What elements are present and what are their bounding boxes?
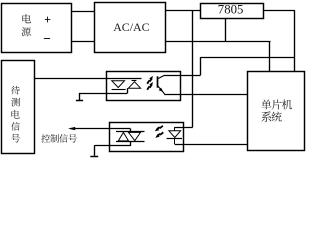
U2 LED (photodiode symbol, down) xyxy=(174,127,176,131)
label 控制信号 xyxy=(41,134,77,143)
wire: AC/AC lower output right xyxy=(166,41,271,43)
U1 LED D2 (up, anti-parallel) xyxy=(128,82,140,89)
wire: collector out of U1 xyxy=(164,75,200,77)
terminal stub at U2 output xyxy=(94,145,96,156)
wire: AC line long vertical xyxy=(192,11,194,127)
block: power supply 电源 box xyxy=(2,4,72,53)
wire: vertical down to MCU top xyxy=(269,42,271,72)
wire: 7805 output right xyxy=(264,10,295,12)
U1 light arrows xyxy=(149,76,153,80)
wire: emitter out of U1 to MCU xyxy=(164,94,248,96)
control signal arrow xyxy=(71,128,131,130)
wire: U1 LED rail jog xyxy=(127,88,129,93)
label - terminal xyxy=(44,38,50,40)
label 单片机系统 xyxy=(261,99,292,121)
wire: U2 LED bottom to MCU xyxy=(175,144,248,146)
optocoupler U1 box (input side) xyxy=(107,72,181,101)
wire: U2 triac top rail xyxy=(116,131,145,133)
svg-text:7805: 7805 xyxy=(218,2,244,16)
terminal stub at U1 input xyxy=(79,93,81,100)
wire: +5V rail to collector branch xyxy=(201,57,295,59)
block: MCU system 单片机系统 box xyxy=(248,72,305,151)
wire: +5V vertical down to MCU top xyxy=(294,10,296,72)
svg-text:AC/AC: AC/AC xyxy=(113,20,149,34)
wire: branch down to phototransistor collector xyxy=(200,57,202,75)
wire: power + to AC/AC xyxy=(71,11,95,13)
U2 triac (two anti-parallel triangles) xyxy=(118,132,128,141)
label 电源 xyxy=(22,14,31,36)
wire: test signal to U1 LED top rail xyxy=(34,78,141,80)
wire: 7805 ground drop xyxy=(225,19,227,42)
block: AC/AC converter box xyxy=(95,3,166,53)
wire: U2 triac bottom rail xyxy=(116,141,145,143)
wire: power - to AC/AC xyxy=(71,41,95,43)
wire: AC line bend to U2 LED top xyxy=(175,127,193,129)
block: 7805 regulator box xyxy=(201,4,264,19)
U1 LED D1 (down) xyxy=(112,81,125,88)
U2 light arrows (pointing to triac) xyxy=(155,128,159,132)
label 待测电信号 (vertical) xyxy=(11,86,20,143)
label + terminal xyxy=(45,19,50,21)
wire: U2 bottom input xyxy=(95,145,131,147)
wire: AC/AC to 7805 input xyxy=(166,10,201,12)
wire: U1 LED bottom rail xyxy=(80,93,128,95)
optocoupler U2 box (output side) xyxy=(110,123,184,152)
wire: jog to U2 bottom input xyxy=(130,141,132,146)
U1 phototransistor Q1 xyxy=(157,76,159,87)
block: signal-under-test 待测电信号 box xyxy=(2,61,35,154)
wire: jog down to U2 triac top rail xyxy=(130,129,132,132)
